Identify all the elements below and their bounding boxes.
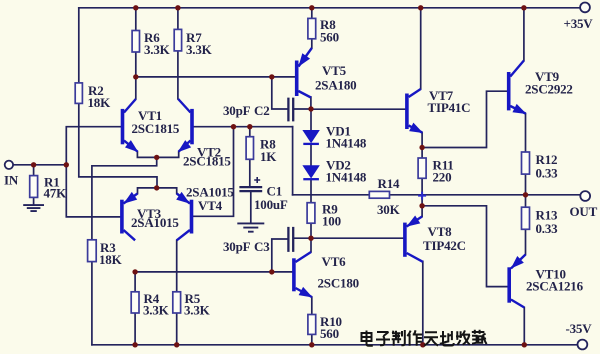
resistor R13 0.33 (522, 207, 530, 229)
transistor VT10 2SCA1216 (PNP output) (509, 255, 525, 308)
wire: node D down to R4 (134, 272, 136, 292)
svg-text:1N4148: 1N4148 (326, 136, 367, 151)
svg-text:+35V: +35V (564, 16, 594, 31)
wire: node A down to VT1 collector (135, 77, 137, 99)
terminal +35V (580, 3, 590, 13)
resistor R9 100 (307, 203, 315, 224)
wire: upper emitter node down, left, down to R3 (92, 157, 157, 239)
svg-text:OUT: OUT (570, 204, 598, 219)
svg-text:18K: 18K (99, 252, 123, 267)
svg-text:2SC1815: 2SC1815 (132, 121, 180, 136)
wire: R5 bottom to -35V rail (176, 313, 178, 345)
watermark char 制 (392, 330, 405, 346)
wire: R9 bottom to node C (310, 223, 312, 238)
watermark char 电 (362, 331, 373, 346)
svg-text:2SC180: 2SC180 (318, 276, 359, 291)
wire: R8 (1K) bottom to C1 top plate (249, 159, 251, 186)
watermark char 地 (440, 331, 454, 346)
wire: node E down to R11 (421, 148, 423, 159)
node: R1/IN (31, 162, 36, 167)
svg-text:R14: R14 (378, 176, 400, 191)
wire: feedback riser down from VT2 base wire to output wire (292, 127, 294, 195)
capacitor C1 plus sign (254, 177, 260, 183)
node: upper emitters (154, 155, 159, 160)
wire: R8 (560) bottom to VT5 emitter slant (311, 39, 313, 48)
wire: R2 column from +35V rail down to R2 top (78, 8, 80, 83)
svg-text:VT8: VT8 (428, 224, 453, 239)
svg-text:IN: IN (4, 173, 19, 188)
wire: VT8 collector down to -35V rail (422, 261, 424, 344)
node: C3 riser on VT6 base wire (269, 269, 274, 274)
node: IN to bases (64, 162, 69, 167)
wire: -35V bottom rail (92, 344, 578, 346)
terminal -35V (578, 340, 588, 350)
svg-text:2SC2922: 2SC2922 (525, 82, 573, 97)
watermark char 天 (424, 332, 438, 345)
wire: output net from feedback riser to R14 (293, 194, 370, 196)
wire: R3 bottom down to -35V rail corner (91, 262, 93, 345)
transistor VT9 2SC2922 (NPN output) (509, 61, 526, 114)
svg-text:220: 220 (433, 170, 452, 185)
node B: VT5 collector/C2/VD1/VT7 base (308, 106, 313, 111)
svg-text:2SA180: 2SA180 (315, 78, 356, 93)
node: rail-R10 (309, 342, 314, 347)
transistor VT2 2SC1815 (NPN, mirrored) (178, 99, 192, 152)
svg-text:1N4148: 1N4148 (326, 170, 367, 185)
svg-text:2SC1815: 2SC1815 (183, 154, 231, 169)
resistor R12 0.33 (522, 152, 530, 174)
node: VT4 base riser on fb wire (231, 124, 236, 129)
svg-text:C2: C2 (254, 103, 270, 118)
resistor R3 18K (88, 240, 97, 262)
resistor R8 1K (246, 137, 253, 160)
wire: node F right and down to VT10 base (422, 206, 507, 287)
capacitor C3 30pF plates (288, 227, 293, 252)
wire: node A to VT5 base (136, 76, 295, 78)
svg-text:3.3K: 3.3K (186, 42, 213, 57)
node: rail-VT9 (521, 5, 526, 10)
diode VD1 1N4148 (303, 131, 319, 144)
wire: VT6 emitter down to R10 (311, 297, 313, 315)
svg-text:18K: 18K (88, 95, 112, 110)
resistor R10 560 (308, 315, 316, 335)
wire: IN node up to VT1 base (66, 127, 120, 165)
svg-text:3.3K: 3.3K (184, 303, 211, 318)
wire: R11 bottom down to node F (crosses output wire) (421, 178, 423, 206)
wire: VT2 base to feedback riser (194, 126, 293, 128)
watermark text: 电子制作天地收藏 (drawn strokes) (362, 330, 487, 346)
svg-text:C3: C3 (254, 239, 270, 254)
svg-text:TIP42C: TIP42C (423, 238, 466, 253)
terminal IN (5, 161, 13, 169)
transistor VT4 2SA1015 (PNP, mirrored) (177, 193, 192, 241)
wire: node A branch C2 riser down and right to C2 left plate (272, 77, 288, 109)
wire: R7 top rail to R7 (177, 8, 179, 30)
svg-text:2SCA1216: 2SCA1216 (526, 279, 584, 294)
resistor R6 3.3K (132, 31, 139, 53)
node: rail-VT7 (418, 5, 423, 10)
svg-text:0.33: 0.33 (536, 221, 559, 236)
wire: VT9 emitter down to R12 (525, 114, 527, 153)
node E: VT7 emitter/R11/VT9 base (419, 145, 424, 150)
wire: VT4 collector down to R5 (176, 240, 178, 291)
node: lower emitters (154, 185, 159, 190)
ground under C1 (237, 223, 264, 231)
wire: R8 (560) top rail stub (311, 8, 313, 19)
diode VD2 1N4148 (303, 166, 319, 179)
svg-text:2SA1015: 2SA1015 (131, 215, 179, 230)
wire: R1 bottom to ground (33, 197, 35, 204)
node D: VT3 collector/R4/VT6 base (132, 269, 137, 274)
transistor VT8 TIP42C (PNP driver) (405, 216, 423, 261)
svg-text:30pF: 30pF (223, 239, 251, 254)
wire: node C right to VT8 base (311, 237, 403, 239)
node: R8 1K top on fb wire (247, 124, 252, 129)
wire: VD2 cathode down to R9 (crosses output wire) (310, 180, 312, 203)
wire: VT5 collector down to node B (310, 97, 312, 109)
node: rail-R5 (174, 342, 179, 347)
resistor R8 560 (308, 18, 316, 38)
resistor R5 3.3K (173, 292, 181, 313)
wire: R10 bottom to -35V rail (311, 334, 313, 344)
wire: R6 top rail to R6 (135, 8, 137, 31)
wire: lower pair emitter U (138, 188, 177, 194)
ground under R1 (23, 205, 44, 211)
wire: VD1 cathode to VD2 anode (310, 145, 312, 166)
wire: VT3 collector node D to VT6 base (135, 271, 292, 273)
watermark char 收 (456, 330, 470, 345)
resistor R7 3.3K (174, 29, 181, 51)
wire: node G down to R13 (525, 195, 527, 207)
svg-text:100uF: 100uF (254, 197, 288, 212)
capacitor C1 100uF plates (239, 187, 262, 191)
node: rail-R7 (175, 5, 180, 10)
wire: R4 bottom to -35V rail (134, 313, 136, 345)
resistor R2 18K (75, 83, 82, 104)
node: rail-R8 (309, 5, 314, 10)
watermark char 作 (407, 330, 422, 345)
wire: VT4 base right then riser up to VT2 base wire (193, 127, 233, 217)
wire: node B down to VD1 anode (310, 109, 312, 131)
wire: C1 bottom plate to ground (250, 192, 252, 222)
wire: IN terminal to IN node (13, 164, 66, 166)
resistor R14 30K (369, 191, 389, 198)
node A: R6/VT1 collector/VT5 base (133, 74, 138, 79)
svg-text:30pF: 30pF (223, 103, 251, 118)
wire: node B right to VT7 base (311, 108, 405, 110)
svg-text:VT4: VT4 (198, 198, 223, 213)
svg-text:30K: 30K (377, 202, 401, 217)
node: rail-VT8 (420, 342, 425, 347)
wire: node E right and up to VT9 base (422, 91, 507, 147)
wire crossover mark at output wire and R11 column (418, 192, 426, 200)
svg-text:560: 560 (320, 30, 339, 45)
watermark char 藏 (472, 330, 487, 344)
capacitor C2 30pF plates (288, 98, 293, 122)
wire: node F down to VT8 emitter slant (421, 206, 423, 217)
wire: VT9 collector up to +35V rail (523, 8, 525, 61)
wire: VT10 collector down to -35V rail (523, 308, 525, 345)
node: C2 riser (269, 74, 274, 79)
svg-text:-35V: -35V (566, 321, 593, 336)
wire: feedback node down to R8 (1K) (249, 127, 251, 137)
transistor VT3 2SA1015 (PNP) (122, 193, 138, 241)
svg-text:VT5: VT5 (322, 63, 347, 78)
node: rail-R4 (132, 342, 137, 347)
wire: R6 bottom to node A (135, 52, 137, 77)
terminal OUT (580, 191, 590, 201)
svg-text:VT6: VT6 (322, 254, 347, 269)
wire: VT1 emitter down to shared U (137, 152, 178, 158)
resistor R11 220 (418, 158, 426, 178)
node: rail-R6 (133, 5, 138, 10)
svg-text:1K: 1K (260, 149, 277, 164)
svg-text:47K: 47K (44, 186, 68, 201)
svg-text:3.3K: 3.3K (144, 42, 171, 57)
wire: node C down to VT6 collector (310, 238, 312, 252)
wire: IN node down to VT3 base (66, 165, 119, 217)
wire: C3 left plate left and riser down to VT6 base wire (272, 239, 288, 272)
wire: R2 bottom down then right then down to lower pair emitter node (79, 103, 157, 187)
resistor R4 3.3K (131, 292, 139, 313)
svg-text:560: 560 (320, 326, 339, 341)
svg-text:100: 100 (322, 214, 341, 229)
transistor VT6 2SC180 (NPN pre-driver) (294, 252, 312, 297)
wire: R13 bottom down to VT10 emitter slant (525, 229, 527, 254)
node C: R9/C3/VT8 base/VT6 collector (308, 236, 313, 241)
resistor R1 47K (30, 176, 38, 198)
transistor VT1 2SC1815 (NPN) (123, 99, 138, 152)
wire: +35V top rail (79, 7, 580, 9)
wire: VT7 emitter down to node E (421, 133, 423, 148)
node G: R12/R13/output (523, 192, 528, 197)
wire: node C left to C3 right plate (294, 237, 311, 239)
wire: VT7 collector up to +35V rail (420, 8, 422, 89)
wire: R7 bottom down to VT2 collector (177, 51, 179, 99)
svg-text:3.3K: 3.3K (143, 303, 170, 318)
svg-text:TIP41C: TIP41C (428, 100, 471, 115)
node F: R11/VT8 emitter/VT10 base (419, 203, 424, 208)
wire: R12 bottom to output node G (525, 174, 527, 195)
node: rail-VT10 (522, 342, 527, 347)
wire: R1 top stub (33, 165, 35, 176)
wire: output net from R14 to OUT terminal (390, 194, 581, 196)
watermark char 子 (376, 332, 390, 345)
wire: C2 right plate to VT5 collector node B (294, 108, 311, 110)
transistor VT7 TIP41C (NPN driver) (407, 89, 422, 133)
transistor VT5 2SA180 (PNP pre-driver) (297, 48, 312, 98)
svg-text:0.33: 0.33 (536, 166, 559, 181)
